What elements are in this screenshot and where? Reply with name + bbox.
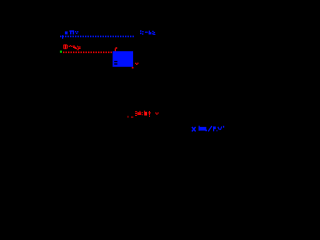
- watermark P glyph: [213, 127, 214, 132]
- threshold label Th glyph: [69, 30, 74, 31]
- threshold dashed line (blue): [60, 35, 134, 37]
- red dot at pulse bottom-right corner: [132, 67, 134, 69]
- pulse rectangle (blue): [113, 51, 134, 67]
- red label scribble blob: [73, 46, 75, 47]
- bottom red annotation check mark: [155, 112, 156, 113]
- right blue annotation: four-dot cluster: [140, 30, 142, 32]
- watermark bar word: [199, 126, 200, 131]
- watermark X glyph: [192, 127, 196, 131]
- tick at start of threshold line: [62, 35, 63, 39]
- red label caret: [69, 46, 70, 47]
- dark equals mark inside pulse: [114, 61, 117, 62]
- threshold label trailing dots: [75, 31, 76, 32]
- watermark trailing marks: [216, 130, 217, 131]
- bottom red annotation w blob: [137, 112, 141, 115]
- right blue annotation: equals dash: [145, 32, 148, 33]
- bottom red annotation solid blob: [144, 112, 147, 116]
- bottom red annotation colon: [142, 112, 143, 113]
- right blue annotation: greater-than marks: [152, 31, 153, 32]
- red arrow above pulse left edge: [116, 47, 118, 48]
- rest dashed line (red): [63, 51, 113, 53]
- bottom red annotation t glyph: [149, 111, 150, 115]
- threshold label square blob: [65, 31, 68, 34]
- green dot at start of rest line: [60, 51, 62, 53]
- right blue annotation: b glyph: [149, 31, 150, 35]
- watermark slash: [208, 126, 212, 131]
- bottom red annotation S glyph: [135, 111, 137, 112]
- red check mark right of pulse: [135, 63, 136, 64]
- red label above rest line: 0 glyph: [63, 44, 67, 45]
- bottom red annotation underscore: [131, 117, 133, 118]
